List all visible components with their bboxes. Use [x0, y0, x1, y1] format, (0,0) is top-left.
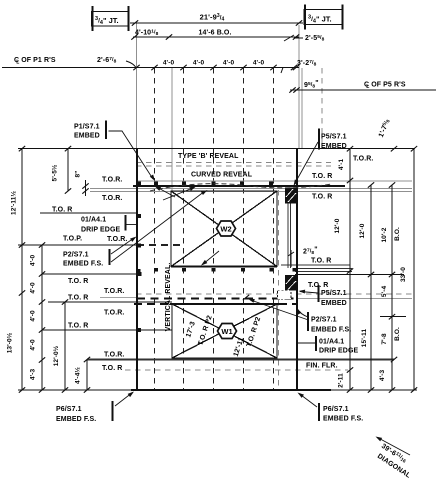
svg-text:DRIP EDGE: DRIP EDGE — [81, 227, 121, 234]
svg-text:4'-0: 4'-0 — [223, 60, 235, 67]
svg-text:W2: W2 — [220, 225, 231, 234]
svg-text:T.O. R: T.O. R — [68, 323, 88, 330]
svg-text:EMBED: EMBED — [321, 143, 347, 150]
svg-text:4'-0: 4'-0 — [193, 60, 205, 67]
svg-text:4'-0: 4'-0 — [253, 60, 265, 67]
svg-text:95/8": 95/8" — [304, 80, 319, 89]
svg-text:T.O.R.: T.O.R. — [102, 195, 122, 202]
svg-text:EMBED F.S.: EMBED F.S. — [63, 261, 103, 268]
svg-text:VERTICAL REVEAL.: VERTICAL REVEAL. — [165, 263, 172, 332]
svg-text:T.O.R.: T.O.R. — [104, 352, 124, 359]
svg-text:4'-0: 4'-0 — [30, 310, 37, 322]
svg-text:3/4" JT.: 3/4" JT. — [95, 16, 119, 26]
svg-text:4'-3: 4'-3 — [379, 370, 386, 382]
svg-text:EMBED F.S.: EMBED F.S. — [311, 327, 351, 334]
svg-text:7'-8: 7'-8 — [381, 333, 388, 345]
svg-text:T.O. R: T.O. R — [102, 365, 122, 372]
svg-text:EMBED F.S.: EMBED F.S. — [56, 416, 96, 423]
svg-text:5'-4: 5'-4 — [381, 286, 388, 298]
svg-text:L: L — [16, 60, 19, 66]
svg-text:4'-0: 4'-0 — [30, 339, 37, 351]
svg-text:DRIP EDGE: DRIP EDGE — [319, 348, 359, 355]
svg-text:T.O. R: T.O. R — [312, 194, 332, 201]
svg-text:C OF P5 R'S: C OF P5 R'S — [364, 82, 406, 89]
svg-text:C OF P1 R'S: C OF P1 R'S — [14, 57, 56, 64]
svg-text:1'-75/8: 1'-75/8 — [377, 118, 392, 139]
svg-text:12'-11½: 12'-11½ — [10, 191, 18, 215]
svg-text:T.O.P.: T.O.P. — [63, 236, 82, 243]
svg-text:01/A4.1: 01/A4.1 — [81, 217, 106, 224]
svg-text:T.O. R: T.O. R — [312, 173, 332, 180]
svg-text:P1/S7.1: P1/S7.1 — [74, 124, 100, 131]
svg-text:P6/S7.1: P6/S7.1 — [323, 406, 349, 413]
svg-text:T.O.R.: T.O.R. — [104, 310, 124, 317]
svg-text:TYPE 'B' REVEAL: TYPE 'B' REVEAL — [178, 153, 239, 160]
svg-text:10'-2: 10'-2 — [381, 227, 388, 242]
svg-text:14'-6 B.O.: 14'-6 B.O. — [198, 30, 231, 37]
svg-text:13'-0½: 13'-0½ — [6, 332, 14, 353]
svg-text:01/A4.1: 01/A4.1 — [319, 339, 344, 346]
svg-text:17'-3: 17'-3 — [185, 321, 197, 339]
svg-text:T.O. R: T.O. R — [68, 295, 88, 302]
svg-text:2'-67/8: 2'-67/8 — [97, 56, 117, 64]
svg-text:3/4" JT.: 3/4" JT. — [308, 15, 332, 25]
svg-text:P2/S7.1: P2/S7.1 — [311, 317, 337, 324]
svg-text:12'-0½: 12'-0½ — [52, 345, 60, 366]
svg-text:4'-0: 4'-0 — [30, 255, 37, 267]
svg-text:4'-101/8: 4'-101/8 — [135, 29, 159, 37]
svg-text:T.O. R: T.O. R — [68, 278, 88, 285]
svg-text:T.O. R P2: T.O. R P2 — [246, 316, 262, 348]
svg-text:T.O.R.: T.O.R. — [353, 156, 373, 163]
svg-text:12'-0: 12'-0 — [359, 223, 366, 238]
svg-text:4'-4½: 4'-4½ — [74, 367, 82, 384]
svg-text:EMBED F.S.: EMBED F.S. — [323, 416, 363, 423]
svg-text:T.O.R.: T.O.R. — [107, 236, 127, 243]
svg-text:27/8": 27/8" — [303, 247, 318, 256]
svg-text:CURVED REVEAL: CURVED REVEAL — [191, 172, 253, 179]
svg-text:T.O. R: T.O. R — [311, 258, 331, 265]
svg-text:EMBED: EMBED — [74, 133, 100, 140]
svg-text:P2/S7.1: P2/S7.1 — [63, 252, 89, 259]
svg-text:2'-55/8: 2'-55/8 — [305, 34, 325, 42]
svg-text:EMBED: EMBED — [321, 300, 347, 307]
svg-text:4'-0: 4'-0 — [30, 282, 37, 294]
svg-text:T.O. R P2: T.O. R P2 — [197, 315, 213, 347]
svg-text:4'-1: 4'-1 — [338, 159, 345, 171]
svg-text:12'-11: 12'-11 — [233, 337, 246, 358]
svg-text:2'-11: 2'-11 — [338, 373, 345, 388]
svg-text:FIN. FLR.: FIN. FLR. — [306, 363, 338, 370]
svg-text:5'-5½: 5'-5½ — [51, 164, 59, 181]
svg-text:4'-0: 4'-0 — [163, 60, 175, 67]
svg-text:B.O.: B.O. — [394, 227, 401, 241]
svg-text:P5/S7.1: P5/S7.1 — [321, 134, 347, 141]
svg-text:33'-0: 33'-0 — [400, 267, 407, 282]
svg-text:T.O.R.: T.O.R. — [104, 288, 124, 295]
svg-text:P6/S7.1: P6/S7.1 — [56, 406, 82, 413]
svg-text:15'-11: 15'-11 — [361, 329, 368, 348]
svg-text:DIAGONAL: DIAGONAL — [376, 453, 412, 480]
svg-text:B.O.: B.O. — [394, 327, 401, 341]
svg-text:8": 8" — [75, 171, 82, 178]
svg-text:T.O. R: T.O. R — [52, 207, 72, 214]
svg-text:P5/S7.1: P5/S7.1 — [321, 290, 347, 297]
svg-text:3'-27/8: 3'-27/8 — [297, 59, 317, 67]
svg-text:21'-93/4: 21'-93/4 — [200, 13, 225, 23]
svg-text:W1: W1 — [221, 327, 232, 336]
svg-text:L: L — [366, 84, 369, 90]
svg-text:T.O.R.: T.O.R. — [102, 177, 122, 184]
svg-text:12'-0: 12'-0 — [334, 218, 341, 233]
svg-text:4'-3: 4'-3 — [30, 369, 37, 381]
